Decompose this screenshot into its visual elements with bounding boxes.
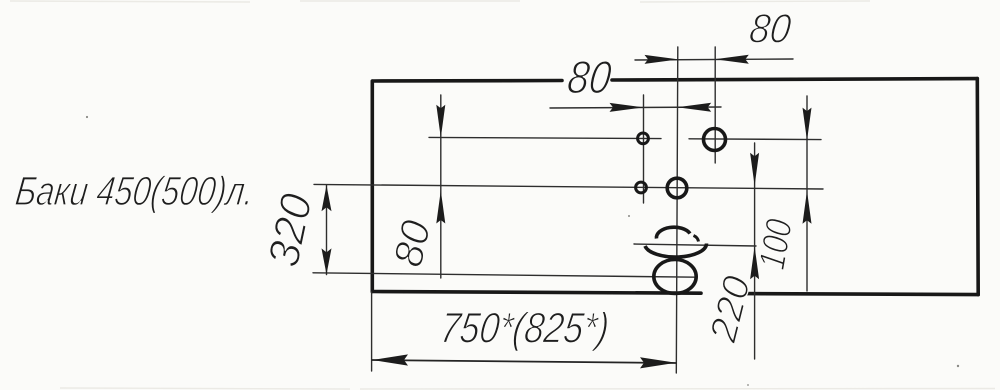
arrowhead 320 up (tip 326.5,185)	[322, 185, 332, 211]
paper specks	[86, 116, 959, 386]
tank outline left edge	[370, 81, 374, 292]
tank outline bottom edge (gap at x=700..746)	[372, 292, 978, 295]
extension line x=643	[643, 95, 645, 203]
dimension line 220 (vertical x=754)	[754, 143, 756, 359]
arrowhead 80-row2 left (points right at 643,107)	[610, 103, 644, 112]
extension line y=245 (drain centre)	[634, 244, 756, 246]
centerline hole row 1 (y=138)	[429, 137, 821, 139]
arrowhead 80-vert up (tip 441,190.5)	[436, 191, 445, 224]
hole large top (714,139)	[704, 129, 726, 151]
extension line y=274	[313, 273, 697, 277]
svg-text:750*(825*): 750*(825*)	[438, 305, 612, 353]
arrowhead 80-top right (points left at 715,59)	[715, 55, 749, 64]
drain upper circle top arc	[656, 227, 690, 238]
hole small top (643,138)	[638, 133, 649, 144]
dimension line 80 (vertical x=441)	[440, 95, 442, 278]
drain upper circle lower arc	[645, 244, 707, 258]
dimension line 320 (vertical x=326)	[326, 185, 328, 275]
extension line x=677 (hole centerline vertical)	[676, 47, 678, 373]
dimension line 750 (bottom, y=361)	[372, 360, 676, 363]
arrowhead 80-top left (points right at 678,59)	[645, 55, 679, 64]
arrowhead 320 down (tip 326.5,274.5)	[322, 248, 332, 274]
svg-text:80: 80	[747, 6, 794, 52]
dimension line 100 (vertical x=807)	[806, 96, 808, 291]
tank outline right edge	[975, 79, 980, 295]
hole medium bottom (677,188)	[667, 178, 687, 198]
extension line left x=371.5	[371, 292, 373, 371]
drain lower ellipse	[654, 260, 696, 294]
tank outline top edge (gap for label 80)	[373, 79, 977, 81]
svg-text:100: 100	[751, 216, 800, 273]
svg-text:Баки 450(500)л.: Баки 450(500)л.	[13, 168, 257, 214]
scan noise bottom edge	[60, 388, 995, 389]
hole small bottom (641,187)	[636, 182, 647, 193]
arrowhead 750 right (tip 676,363)	[640, 357, 676, 368]
arrowhead 220 down (tip 754.6,185.5)	[750, 153, 759, 186]
drain upper circle right fragment	[694, 236, 699, 242]
arrowhead 100 down (tip 807,140.5)	[803, 108, 812, 141]
scan noise top edge	[10, 1, 870, 2]
dimension line 80 (top row, y=59)	[635, 59, 793, 60]
dimension line 80 (second row, y=107)	[550, 107, 721, 108]
centerline hole row 2 (y=186)	[314, 184, 823, 189]
arrowhead 80-row2 right (points left at 677.5,107)	[677, 103, 711, 112]
svg-text:80: 80	[565, 51, 615, 103]
arrowhead 220 up (tip 754.6,246.5)	[750, 246, 759, 279]
arrowhead 100 up (tip 807,191)	[803, 191, 812, 224]
arrowhead 80-vert down (tip 441,137.5)	[436, 105, 445, 138]
extension line x=715	[714, 47, 716, 163]
arrowhead 750 left (tip 372,360)	[372, 354, 408, 365]
